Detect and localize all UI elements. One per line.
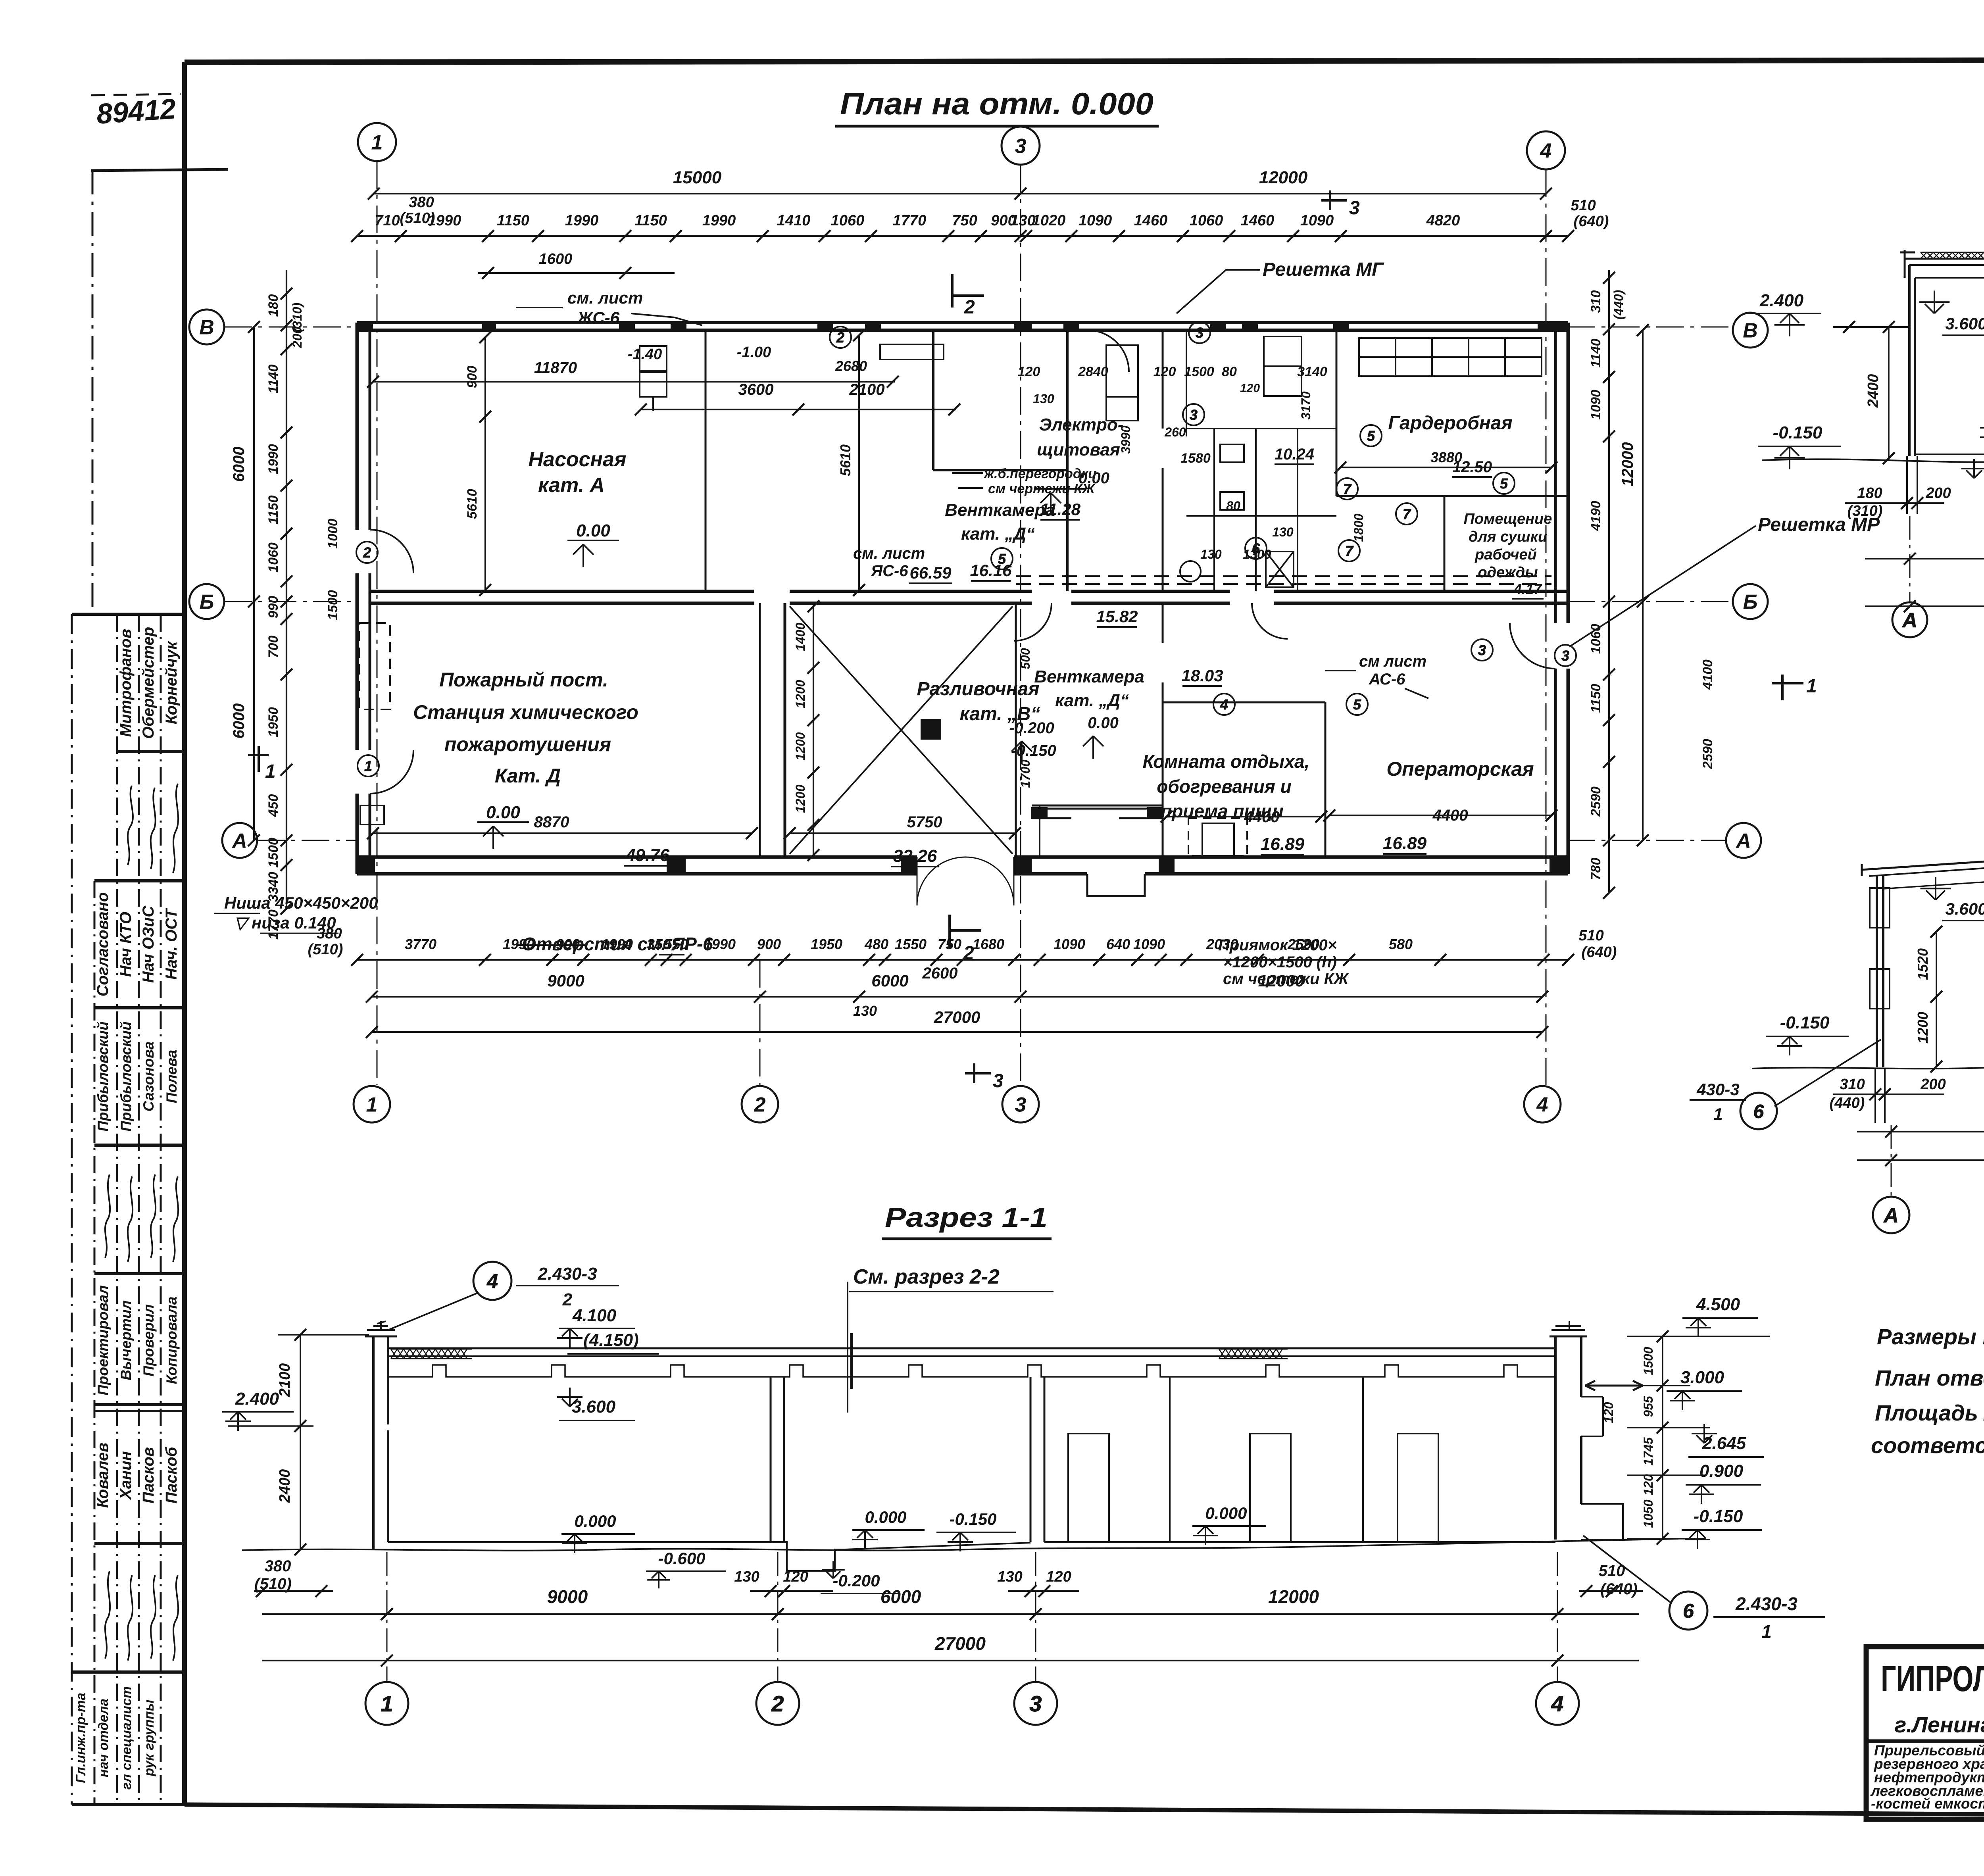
svg-text:кат. „Д“: кат. „Д“ (1055, 691, 1129, 710)
object description small text (1870, 1742, 1984, 1812)
svg-text:9000: 9000 (547, 971, 584, 990)
plan annotations (224, 259, 1880, 988)
svg-text:Б: Б (1743, 591, 1758, 614)
svg-text:Операторская: Операторская (1386, 758, 1534, 780)
svg-text:см чертежи КЖ: см чертежи КЖ (1223, 970, 1349, 988)
svg-text:Ханин: Ханин (117, 1451, 135, 1500)
svg-text:3.000: 3.000 (1680, 1368, 1724, 1387)
plan interior partitions (706, 330, 1568, 896)
svg-text:710: 710 (375, 212, 400, 229)
svg-text:1150: 1150 (497, 212, 529, 229)
svg-text:0.00: 0.00 (486, 803, 520, 822)
title block grid (1866, 1647, 1984, 1819)
svg-text:3: 3 (1561, 648, 1569, 664)
svg-text:4: 4 (1551, 1691, 1563, 1716)
stamp row 5 signatures (105, 1174, 178, 1262)
svg-text:380: 380 (265, 1557, 291, 1575)
svg-text:Насосная: Насосная (528, 448, 626, 471)
svg-text:0.00: 0.00 (1088, 714, 1119, 732)
svg-text:510: 510 (1571, 197, 1596, 214)
svg-text:2.400: 2.400 (235, 1389, 279, 1409)
svg-text:0.900: 0.900 (1699, 1461, 1744, 1481)
svg-text:Ниша 450×450×200: Ниша 450×450×200 (224, 894, 378, 912)
svg-text:Нач. ОСТ: Нач. ОСТ (163, 907, 180, 980)
svg-text:1090: 1090 (1588, 390, 1603, 420)
svg-text:3.600: 3.600 (572, 1397, 616, 1417)
svg-text:3.600: 3.600 (1945, 900, 1984, 918)
svg-text:2.645: 2.645 (1702, 1434, 1746, 1453)
svg-text:Согласовано: Согласовано (94, 892, 112, 997)
svg-text:990: 990 (266, 596, 281, 619)
svg-text:120: 120 (1240, 382, 1260, 395)
plan bottom dimension rows (351, 954, 1574, 1038)
svg-text:А: А (1735, 830, 1751, 853)
svg-text:Отверстия см. ЯР-6: Отверстия см. ЯР-6 (522, 934, 713, 954)
svg-text:1460: 1460 (1241, 212, 1275, 229)
svg-text:1990: 1990 (565, 212, 599, 229)
svg-text:Обермейстер: Обермейстер (140, 627, 157, 739)
svg-text:130: 130 (734, 1568, 759, 1585)
stamp row 6 roles (95, 1285, 180, 1395)
svg-text:2590: 2590 (1588, 786, 1603, 817)
svg-text:1000: 1000 (325, 519, 340, 549)
svg-text:380: 380 (409, 194, 434, 211)
svg-text:180: 180 (266, 294, 281, 317)
svg-text:3: 3 (1478, 642, 1486, 658)
svg-text:12000: 12000 (1259, 168, 1308, 187)
svg-text:1150: 1150 (1588, 684, 1603, 713)
svg-text:(510): (510) (254, 1575, 291, 1593)
svg-text:1520: 1520 (1915, 948, 1931, 980)
svg-text:Кат. Д: Кат. Д (495, 765, 561, 787)
svg-text:130: 130 (853, 1003, 877, 1019)
svg-text:Площадь легкосбрасываемых ко: Площадь легкосбрасываемых конструкций на… (1875, 1400, 1984, 1425)
svg-text:7: 7 (1403, 506, 1411, 522)
svg-text:18.03: 18.03 (1181, 666, 1223, 685)
svg-text:80: 80 (1226, 499, 1240, 513)
svg-text:Паскоб: Паскоб (163, 1446, 180, 1503)
svg-text:Нач КТО: Нач КТО (117, 912, 135, 977)
svg-text:3: 3 (1190, 407, 1198, 423)
svg-text:510: 510 (1578, 927, 1603, 944)
svg-text:План отверстий и перемычек: План отверстий и перемычек см. лист АР-6… (1875, 1365, 1984, 1390)
svg-text:3: 3 (1196, 325, 1203, 341)
svg-text:6000: 6000 (230, 447, 248, 482)
svg-text:2: 2 (754, 1094, 766, 1117)
svg-text:4: 4 (1540, 140, 1552, 163)
svg-text:4820: 4820 (1426, 212, 1460, 229)
svg-text:16.89: 16.89 (1383, 834, 1427, 853)
svg-text:5750: 5750 (907, 813, 942, 831)
svg-text:1460: 1460 (1134, 212, 1168, 229)
svg-text:49.76: 49.76 (625, 846, 670, 865)
svg-text:12000: 12000 (1619, 442, 1636, 486)
svg-text:7: 7 (1343, 481, 1352, 497)
svg-text:Нач ОЗиС: Нач ОЗиС (140, 905, 157, 983)
svg-text:32.26: 32.26 (893, 846, 937, 866)
svg-text:-0.150: -0.150 (1780, 1013, 1830, 1032)
svg-text:2400: 2400 (277, 1469, 293, 1503)
svg-text:(4.150): (4.150) (583, 1330, 638, 1350)
svg-text:1550: 1550 (895, 936, 927, 952)
svg-text:3880: 3880 (1430, 449, 1462, 465)
svg-text:Проверил: Проверил (140, 1304, 157, 1376)
svg-text:89412: 89412 (96, 93, 177, 130)
svg-text:Митрофанов: Митрофанов (117, 629, 135, 737)
svg-text:4.500: 4.500 (1696, 1295, 1740, 1314)
svg-text:1: 1 (1806, 676, 1817, 697)
stamp row 3 roles (94, 892, 180, 997)
stamp row 1 names (117, 627, 180, 739)
svg-text:120: 120 (1601, 1402, 1616, 1423)
svg-text:16.89: 16.89 (1261, 834, 1305, 854)
svg-text:1500: 1500 (1184, 364, 1214, 379)
svg-text:120: 120 (1641, 1474, 1655, 1495)
svg-text:900: 900 (757, 936, 781, 952)
plan left dimension columns (248, 270, 292, 915)
svg-text:Венткамера: Венткамера (945, 500, 1055, 520)
svg-text:Пасков: Пасков (140, 1447, 157, 1503)
svg-text:1: 1 (371, 131, 383, 154)
svg-text:0.000: 0.000 (865, 1508, 906, 1526)
svg-text:В: В (1743, 319, 1758, 342)
svg-text:1950: 1950 (811, 936, 842, 952)
svg-text:130: 130 (1272, 525, 1294, 539)
svg-text:1060: 1060 (1190, 212, 1223, 229)
svg-text:8870: 8870 (534, 813, 569, 831)
svg-text:2.430-3: 2.430-3 (537, 1264, 597, 1284)
svg-text:см чертежи КЖ: см чертежи КЖ (988, 481, 1096, 496)
svg-text:-0.150: -0.150 (1773, 423, 1823, 442)
svg-text:260: 260 (1164, 425, 1186, 439)
stamp row 8 signatures (105, 1571, 178, 1661)
svg-text:1060: 1060 (266, 542, 281, 573)
svg-text:ЯС-6: ЯС-6 (871, 562, 908, 580)
svg-text:Прибыловский: Прибыловский (118, 1021, 134, 1131)
svg-text:27000: 27000 (934, 1633, 986, 1654)
svg-text:2: 2 (964, 297, 975, 318)
svg-text:см лист: см лист (1359, 653, 1426, 670)
svg-text:11870: 11870 (534, 359, 577, 377)
svg-text:1060: 1060 (1588, 624, 1603, 654)
svg-text:130: 130 (1033, 392, 1054, 406)
svg-text:1150: 1150 (266, 495, 281, 524)
svg-text:3140: 3140 (1297, 364, 1327, 379)
svg-text:1200: 1200 (793, 732, 807, 760)
svg-text:1: 1 (364, 758, 372, 774)
svg-text:1300: 1300 (1243, 547, 1271, 561)
svg-text:1140: 1140 (1588, 338, 1603, 367)
svg-text:Корнейчук: Корнейчук (163, 641, 180, 724)
svg-text:1600: 1600 (539, 251, 573, 267)
svg-text:1745: 1745 (1641, 1437, 1655, 1465)
svg-text:780: 780 (1588, 858, 1603, 880)
svg-text:3: 3 (993, 1071, 1004, 1092)
svg-text:500: 500 (1018, 648, 1032, 669)
svg-text:15.82: 15.82 (1096, 607, 1138, 626)
svg-text:200: 200 (1920, 1076, 1946, 1093)
svg-text:Разрез 1-1: Разрез 1-1 (885, 1202, 1048, 1233)
svg-text:одежды: одежды (1478, 564, 1538, 581)
svg-text:2590: 2590 (1700, 739, 1715, 769)
svg-text:480: 480 (864, 936, 888, 952)
svg-text:6000: 6000 (871, 971, 908, 990)
svg-text:3770: 3770 (405, 936, 436, 952)
svg-text:450: 450 (266, 794, 281, 817)
svg-text:Разливочная: Разливочная (917, 679, 1039, 700)
svg-text:Станция химического: Станция химического (413, 701, 638, 723)
svg-text:3990: 3990 (1119, 425, 1133, 454)
svg-text:-1.40: -1.40 (628, 346, 662, 363)
svg-text:3: 3 (1029, 1691, 1042, 1716)
svg-text:Электро-: Электро- (1039, 415, 1124, 434)
svg-text:2: 2 (836, 329, 844, 346)
svg-text:Б: Б (200, 591, 214, 614)
svg-text:Венткамера: Венткамера (1034, 667, 1144, 686)
svg-text:3.600: 3.600 (1945, 314, 1984, 333)
svg-text:180: 180 (1857, 485, 1882, 502)
svg-text:1200: 1200 (793, 680, 807, 708)
svg-text:1680: 1680 (973, 936, 1004, 952)
svg-text:1700: 1700 (1018, 759, 1032, 788)
svg-text:2680: 2680 (835, 358, 867, 374)
svg-text:0.000: 0.000 (574, 1512, 616, 1530)
svg-text:15000: 15000 (673, 168, 722, 187)
svg-text:430-3: 430-3 (1696, 1080, 1739, 1099)
svg-text:1090: 1090 (1079, 212, 1112, 229)
svg-text:1200: 1200 (793, 784, 807, 813)
svg-text:▽ низа 0.140: ▽ низа 0.140 (234, 913, 336, 932)
svg-text:2600: 2600 (922, 965, 958, 982)
svg-text:Помещение: Помещение (1464, 511, 1552, 527)
door swing arcs (370, 330, 1555, 905)
svg-text:2100: 2100 (277, 1363, 293, 1397)
svg-text:900: 900 (465, 366, 480, 388)
svg-text:Вычертил: Вычертил (118, 1300, 134, 1380)
svg-text:120: 120 (1153, 364, 1176, 379)
svg-text:(640): (640) (1574, 213, 1609, 230)
svg-text:1500: 1500 (1641, 1347, 1655, 1375)
svg-text:См. разрез 2-2: См. разрез 2-2 (853, 1265, 1000, 1288)
plan right dimension columns (1603, 270, 1649, 899)
section cut marks (248, 190, 1803, 1083)
svg-text:Гардеробная: Гардеробная (1388, 413, 1513, 434)
svg-text:-костей емкостей 2000 м3: -костей емкостей 2000 м3 (1871, 1795, 1984, 1812)
svg-text:-0.600: -0.600 (658, 1549, 705, 1568)
svg-text:9000: 9000 (547, 1586, 588, 1607)
svg-text:1090: 1090 (1300, 212, 1334, 229)
svg-text:1500: 1500 (325, 590, 340, 620)
svg-text:Сазонова: Сазонова (140, 1042, 157, 1112)
svg-text:кат. А: кат. А (538, 474, 605, 497)
svg-text:ГИПРОЛЕСТРАНС: ГИПРОЛЕСТРАНС (1881, 1659, 1984, 1699)
vent duct dashed band (1016, 576, 1551, 584)
svg-text:130: 130 (1200, 547, 1222, 561)
svg-text:200: 200 (290, 327, 304, 348)
plan grid circles 1-4, А-В (189, 123, 1768, 1123)
svg-text:6: 6 (1683, 1600, 1694, 1622)
svg-text:1410: 1410 (777, 212, 811, 229)
svg-text:80: 80 (1222, 364, 1237, 379)
svg-text:120: 120 (1018, 364, 1040, 379)
svg-text:2.400: 2.400 (1759, 291, 1804, 310)
svg-text:Проектировал: Проектировал (95, 1285, 111, 1395)
svg-text:1: 1 (1713, 1105, 1723, 1123)
svg-text:1: 1 (265, 761, 276, 782)
svg-text:4: 4 (1536, 1094, 1548, 1117)
svg-text:1140: 1140 (266, 364, 281, 393)
svg-text:66.59: 66.59 (909, 563, 952, 582)
svg-text:2400: 2400 (1865, 374, 1882, 408)
plan exterior walls (357, 321, 1568, 874)
svg-text:-1.00: -1.00 (737, 344, 771, 361)
svg-text:×1200×1500 (h): ×1200×1500 (h) (1223, 953, 1337, 971)
interior dimension chains (367, 329, 1557, 861)
svg-text:700: 700 (266, 636, 281, 658)
svg-text:2: 2 (562, 1290, 573, 1309)
svg-text:5: 5 (1353, 696, 1361, 713)
svg-text:1: 1 (366, 1094, 378, 1117)
svg-text:2: 2 (771, 1691, 784, 1716)
svg-text:7: 7 (1345, 543, 1354, 559)
svg-text:2: 2 (363, 544, 371, 561)
plan top dimension rows (351, 188, 1574, 242)
svg-text:кат. „Д“: кат. „Д“ (961, 524, 1035, 544)
svg-text:4: 4 (1220, 696, 1228, 713)
svg-text:3600: 3600 (738, 381, 774, 398)
svg-text:10.24: 10.24 (1275, 446, 1314, 463)
sheet border frame (185, 60, 1984, 62)
svg-text:3: 3 (1349, 198, 1360, 219)
svg-text:ж.б.перегородки: ж.б.перегородки (983, 466, 1096, 481)
stamp row 2 signatures (128, 784, 178, 873)
svg-text:1200: 1200 (1915, 1012, 1931, 1044)
svg-text:обогревания и: обогревания и (1157, 776, 1292, 797)
svg-text:3: 3 (1015, 1094, 1027, 1117)
svg-text:6000: 6000 (880, 1586, 921, 1607)
svg-text:-0.200: -0.200 (1009, 719, 1054, 737)
svg-text:5610: 5610 (837, 444, 854, 476)
svg-text:1400: 1400 (793, 623, 807, 651)
svg-text:соответствует требованиям гл: соответствует требованиям главы СНиП II-… (1871, 1433, 1984, 1458)
svg-text:1580: 1580 (1180, 451, 1211, 466)
svg-text:580: 580 (1389, 936, 1413, 952)
svg-text:см. лист: см. лист (567, 288, 643, 307)
svg-text:2: 2 (963, 943, 974, 964)
svg-text:А: А (1883, 1204, 1899, 1227)
svg-text:А: А (231, 830, 247, 853)
svg-text:1: 1 (1761, 1621, 1772, 1642)
svg-text:для сушки: для сушки (1469, 529, 1547, 545)
svg-text:640: 640 (1106, 936, 1130, 952)
plan grid axis lines (377, 161, 378, 1085)
svg-text:ЖС-6: ЖС-6 (577, 308, 620, 327)
svg-text:Гл.инж.пр-та: Гл.инж.пр-та (73, 1693, 88, 1783)
svg-text:(510): (510) (308, 941, 343, 958)
svg-text:5: 5 (1367, 428, 1375, 444)
stamp row 7 names (94, 1443, 180, 1508)
svg-text:-0.150: -0.150 (1694, 1507, 1743, 1526)
svg-text:200: 200 (1925, 485, 1951, 502)
section 2-2 building (1900, 131, 1984, 456)
svg-text:1500: 1500 (266, 838, 281, 868)
stamp row 4 names (95, 1021, 180, 1131)
stamp row 9 roles (73, 1686, 157, 1790)
section 3-3 building (1752, 702, 1984, 1197)
svg-text:г.Ленинград 1975г.: г.Ленинград 1975г. (1895, 1712, 1984, 1737)
svg-text:5610: 5610 (465, 489, 480, 519)
svg-text:-0.200: -0.200 (832, 1571, 880, 1590)
svg-text:0.00: 0.00 (576, 521, 610, 540)
svg-text:0.000: 0.000 (1205, 1504, 1247, 1522)
room name labels (413, 413, 1552, 821)
svg-text:2.430-3: 2.430-3 (1735, 1593, 1798, 1614)
svg-text:см. лист: см. лист (853, 545, 925, 562)
svg-text:12000: 12000 (1268, 1586, 1319, 1607)
svg-text:1020: 1020 (1032, 212, 1066, 229)
svg-text:4190: 4190 (1588, 501, 1603, 531)
svg-text:6: 6 (1753, 1101, 1764, 1122)
svg-text:4.100: 4.100 (572, 1306, 617, 1325)
svg-text:1090: 1090 (1133, 936, 1165, 952)
svg-text:Копировала: Копировала (163, 1297, 180, 1384)
svg-text:рук группы: рук группы (142, 1700, 157, 1777)
area values and level marks (486, 344, 1542, 866)
svg-text:6000: 6000 (230, 703, 248, 739)
svg-text:Пожарный пост.: Пожарный пост. (439, 669, 608, 691)
stamp column grid (72, 614, 185, 1805)
svg-text:4100: 4100 (1700, 659, 1715, 690)
svg-text:(640): (640) (1582, 944, 1617, 961)
svg-text:3170: 3170 (1299, 391, 1313, 419)
svg-text:750: 750 (952, 212, 977, 229)
svg-text:Решетка МГ: Решетка МГ (1263, 259, 1384, 280)
svg-text:310: 310 (1840, 1076, 1865, 1093)
svg-text:(310): (310) (1848, 503, 1883, 519)
svg-text:нач отдела: нач отдела (96, 1699, 111, 1777)
razlivochnaya X cross (790, 606, 1013, 854)
svg-text:1060: 1060 (831, 212, 865, 229)
svg-text:5: 5 (998, 551, 1006, 567)
svg-text:1950: 1950 (266, 707, 281, 737)
svg-text:АС-6: АС-6 (1369, 671, 1405, 688)
svg-text:1050: 1050 (1641, 1499, 1655, 1528)
svg-text:1: 1 (381, 1691, 393, 1716)
svg-text:(640): (640) (1600, 1580, 1637, 1598)
svg-text:120: 120 (783, 1568, 808, 1585)
svg-text:Прибыловский: Прибыловский (95, 1021, 111, 1131)
svg-text:Ковалев: Ковалев (94, 1443, 112, 1508)
svg-text:План на отм. 0.000: План на отм. 0.000 (840, 86, 1153, 121)
svg-text:щитовая: щитовая (1037, 440, 1120, 459)
svg-text:130: 130 (997, 1568, 1022, 1585)
svg-text:2840: 2840 (1078, 364, 1108, 379)
svg-text:(510): (510) (400, 210, 435, 227)
svg-text:Размеры в скобках даны для: Размеры в скобках даны для температуры -… (1877, 1324, 1984, 1349)
svg-text:310: 310 (1588, 290, 1603, 313)
svg-text:Полева: Полева (163, 1050, 180, 1103)
svg-text:(440): (440) (1830, 1095, 1865, 1111)
svg-text:Приямок 1200×: Приямок 1200× (1218, 936, 1337, 954)
svg-text:гл специалист: гл специалист (119, 1686, 134, 1790)
svg-text:рабочей: рабочей (1475, 546, 1537, 563)
svg-text:пожаротушения: пожаротушения (444, 733, 611, 755)
svg-text:3: 3 (1015, 135, 1027, 158)
svg-text:1990: 1990 (266, 444, 281, 474)
svg-text:1770: 1770 (893, 212, 927, 229)
svg-text:27000: 27000 (934, 1008, 980, 1026)
svg-text:А: А (1901, 609, 1917, 632)
